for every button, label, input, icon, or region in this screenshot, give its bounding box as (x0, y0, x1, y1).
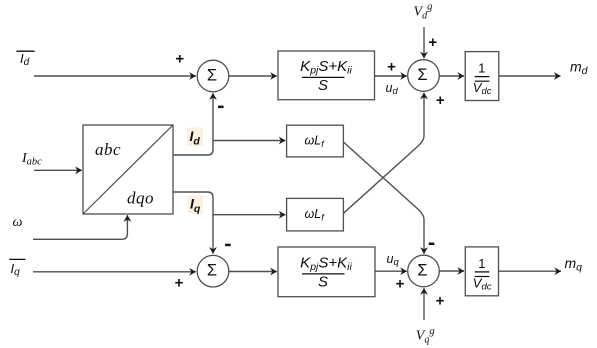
summer S3 (197, 255, 229, 287)
block G2 1/Vdc normalization (465, 247, 498, 296)
wire Id measured from T1 up to summer S1 (173, 93, 213, 155)
svg-text:Σ: Σ (207, 262, 217, 280)
block PI2 q-axis PI controller (KpjS+Kii)/S (278, 247, 375, 297)
wire Vqg to summer S4 (423, 288, 425, 320)
svg-text:+: + (396, 276, 405, 293)
svg-text:+: + (436, 293, 445, 310)
svg-text:ud: ud (386, 81, 399, 97)
block G1 1/Vdc normalization (465, 52, 499, 101)
summer S4 (408, 255, 440, 287)
svg-text:ω: ω (13, 215, 23, 230)
svg-text:Σ: Σ (417, 66, 427, 84)
svg-text:+: + (387, 58, 396, 75)
block L2 omega-Lf cross coupling gain (287, 198, 344, 231)
svg-text:KpjS+Kii: KpjS+Kii (300, 255, 352, 274)
wire Iq measured from T1 down to summer S3 (173, 192, 213, 254)
node Iq measured label (188, 196, 204, 216)
minus sign at S4 top input (429, 243, 435, 246)
wire S3 to PI block PI2 (229, 271, 277, 273)
wire Iabc to T1 (34, 169, 82, 171)
svg-text:+: + (436, 92, 445, 109)
svg-text:abc: abc (95, 140, 121, 159)
wire Iq branch to coupling block L2 (213, 214, 285, 216)
wire S1 to PI block PI1 (229, 75, 277, 77)
svg-text:Vdg: Vdg (414, 2, 433, 22)
block L1 omega-Lf cross coupling gain (287, 125, 344, 157)
svg-text:Iq: Iq (11, 261, 21, 278)
svg-text:uq: uq (387, 252, 400, 268)
node Id measured label (187, 128, 203, 148)
svg-text:+: + (175, 274, 184, 291)
minus sign at S3 top input (225, 244, 231, 247)
svg-text:Iabc: Iabc (21, 151, 42, 168)
svg-text:+: + (428, 34, 437, 51)
svg-text:+: + (175, 51, 184, 68)
wire Iq-ref to summer S3 (33, 271, 196, 273)
svg-text:KpjS+Kii: KpjS+Kii (300, 58, 352, 77)
svg-text:md: md (570, 59, 589, 78)
block T1 abc to dq0 transformation (83, 125, 173, 214)
wire L1 cross coupling down to summer S4 (343, 142, 424, 254)
svg-text:Id: Id (20, 51, 30, 68)
node Id-ref input label (I-bar d) (16, 51, 34, 68)
wire Id-ref to summer S1 (34, 75, 196, 77)
wire L2 cross coupling up to summer S2 (343, 93, 424, 214)
svg-text:S: S (318, 77, 328, 94)
minus sign at S1 feedback input (218, 106, 224, 109)
wire G1 to md output (499, 75, 561, 77)
wire Id branch to coupling block L1 (213, 140, 285, 142)
svg-text:Vqg: Vqg (416, 326, 435, 346)
wire G2 to mq output (499, 270, 562, 272)
wire S4 to gain block G2 (439, 270, 464, 272)
summer S1 (197, 60, 229, 92)
svg-text:S: S (318, 274, 328, 291)
wire PI1 to summer S2 (375, 75, 407, 77)
block PI1 d-axis PI controller (KpjS+Kii)/S (278, 51, 375, 100)
wire PI2 to summer S4 (375, 270, 407, 272)
wire omega to T1 bottom (33, 215, 127, 239)
wire S2 to gain block G1 (439, 75, 464, 77)
wire Vdg to summer S2 (423, 27, 425, 58)
svg-text:dqo: dqo (127, 189, 154, 208)
summer S2 (408, 60, 440, 92)
svg-text:1: 1 (478, 256, 485, 271)
svg-text:mq: mq (565, 255, 583, 274)
node Iq-ref input label (I-bar q) (9, 259, 25, 278)
svg-text:1: 1 (478, 61, 485, 76)
svg-text:Σ: Σ (207, 67, 217, 85)
svg-text:Σ: Σ (417, 262, 427, 280)
